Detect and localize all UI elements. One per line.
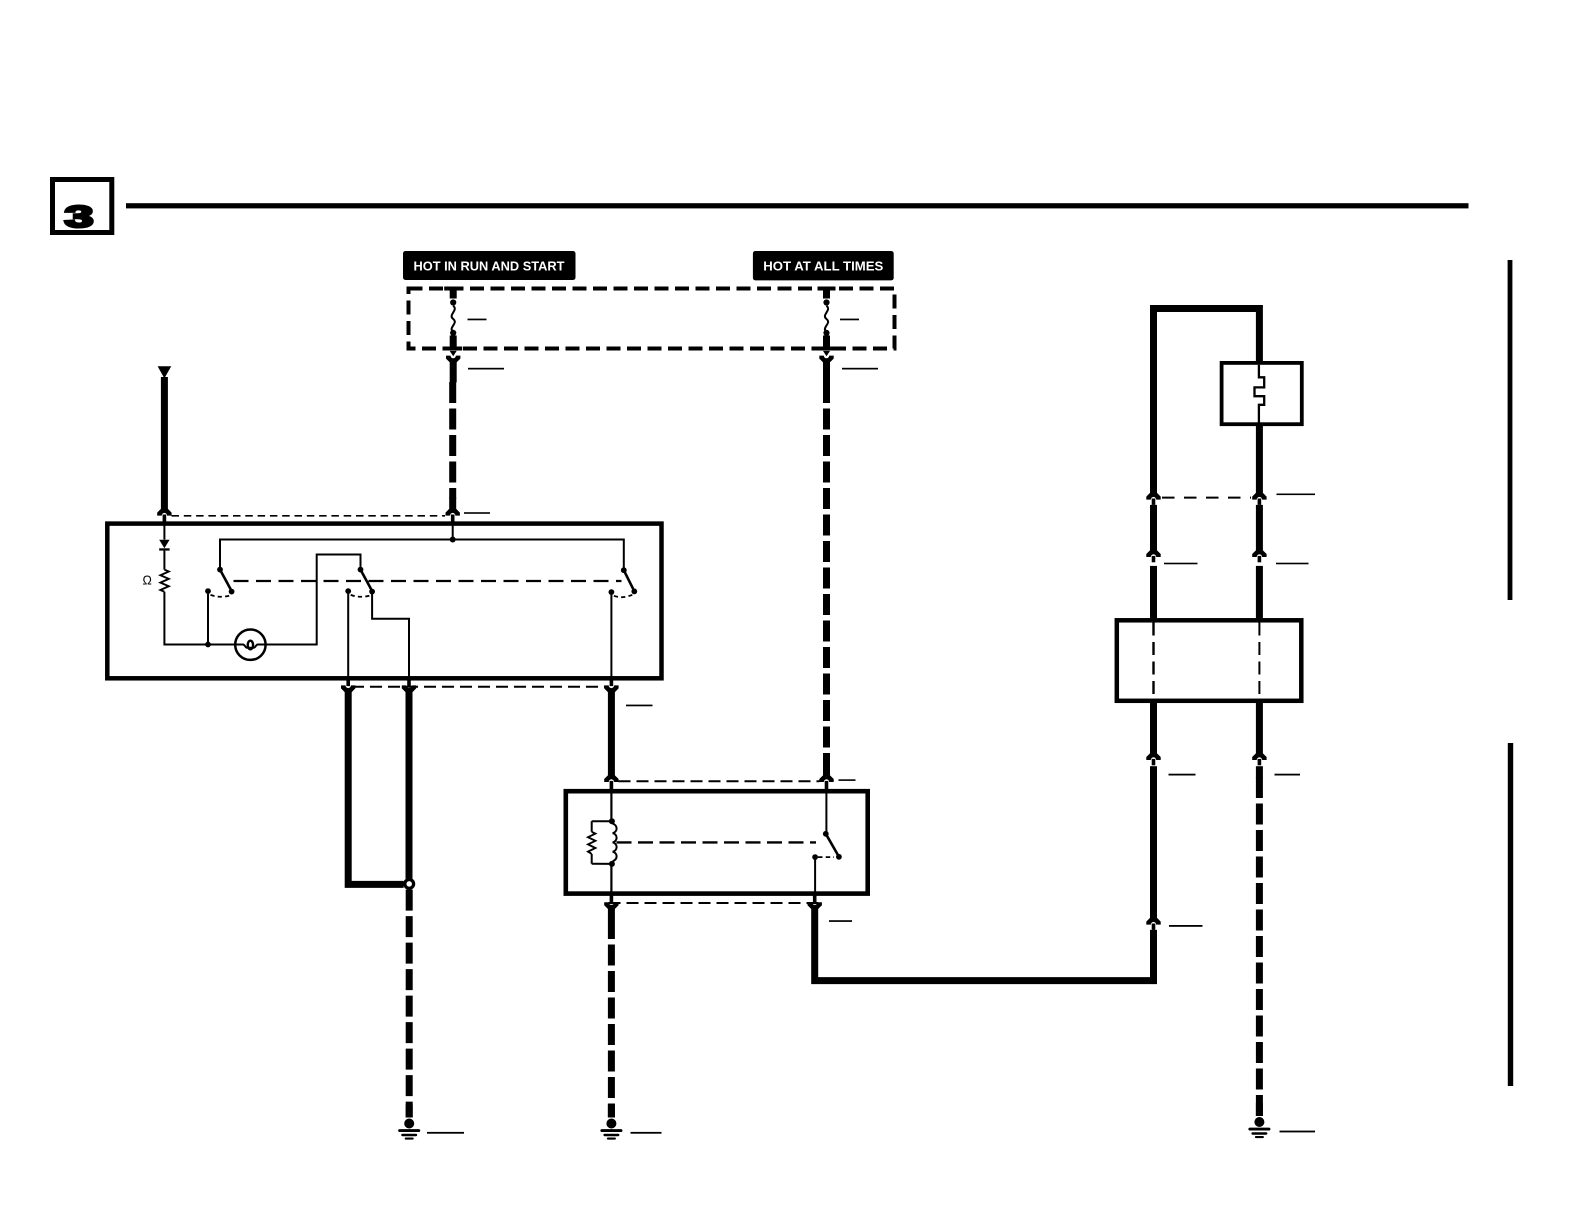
fuse box (dashed) xyxy=(409,289,895,349)
connector plane dashed line (relay bottom) xyxy=(609,902,819,904)
page edge bar lower xyxy=(1508,743,1513,1086)
wire C radio to relay xyxy=(608,691,615,776)
speaker element xyxy=(1255,365,1265,423)
ground G1 xyxy=(398,1119,420,1140)
connector label line (relay bottom right) xyxy=(829,920,852,922)
resistor R1 xyxy=(160,570,168,592)
wire crossing bar top F2 xyxy=(818,287,836,291)
connector plane dashed line (radio bottom) xyxy=(352,686,607,688)
antenna xyxy=(158,366,172,509)
ground G3 label line xyxy=(1280,1131,1316,1133)
wire amp box bottom left stub xyxy=(1150,701,1157,754)
label line (speaker feed left) xyxy=(1164,563,1198,565)
ground G2 xyxy=(600,1119,622,1140)
switch S2 xyxy=(345,567,409,677)
inline connector pair at speaker feed (left) xyxy=(1146,550,1160,562)
diode D1 xyxy=(159,523,169,570)
svg-text:HOT IN RUN AND START: HOT IN RUN AND START xyxy=(414,258,565,273)
relay box xyxy=(566,791,868,893)
wire speaker box to C1 xyxy=(1256,425,1263,494)
wire relay to amplifier loop xyxy=(815,908,1154,981)
wire A radio to splice xyxy=(348,691,403,885)
amplifier box xyxy=(1117,620,1302,701)
connector antenna to radio xyxy=(157,509,171,522)
wire crossing bar bottom F2 xyxy=(818,347,836,351)
node rail junction xyxy=(450,537,456,543)
fuse F1 xyxy=(450,287,457,347)
connector below fuse F1 xyxy=(446,351,460,363)
connector below fuse F2 xyxy=(819,351,833,363)
connector C1 label line xyxy=(1277,494,1316,496)
connector B+ to radio xyxy=(446,509,460,522)
connector plane dashed line (radio top) xyxy=(172,515,446,517)
ground G2 label line xyxy=(631,1132,662,1134)
connector radio bottom pin 3 xyxy=(604,676,618,692)
wire label line (F1 wire) xyxy=(468,368,504,370)
top rail (B+ distribution) xyxy=(220,540,624,571)
ground G1 label line xyxy=(427,1132,464,1134)
wire relay to ground (dashed) xyxy=(608,907,615,1117)
connector plane dashed line (relay top) xyxy=(619,780,820,782)
wire crossing bar top F1 xyxy=(444,287,462,291)
page number box "3" xyxy=(53,180,112,235)
relay linkage dashed xyxy=(617,841,817,843)
node junction (lamp wire) xyxy=(205,642,211,648)
page edge bar upper xyxy=(1508,260,1513,600)
wire into amp top right xyxy=(1256,566,1263,618)
speaker box xyxy=(1222,363,1302,424)
relay coil assembly xyxy=(588,793,617,894)
speaker loop wire xyxy=(1154,309,1260,494)
wire between connectors right xyxy=(1256,505,1263,551)
wire into amp top left xyxy=(1150,566,1157,618)
lamp L1 xyxy=(235,630,265,660)
wire amp to C3 xyxy=(1150,766,1157,918)
connector radio bottom pin 2 xyxy=(402,676,416,692)
inline connector C3 (lower right) xyxy=(1146,918,1160,930)
wire lamp to switch S2 xyxy=(265,555,361,645)
svg-text:3: 3 xyxy=(65,199,94,234)
inline connector C1 left xyxy=(1146,493,1160,505)
wire label line (F2 wire) xyxy=(842,368,878,370)
connector below amp right label line xyxy=(1275,774,1301,776)
connector below amp right xyxy=(1252,753,1266,765)
splice ring xyxy=(405,880,414,889)
connector relay top left xyxy=(604,775,618,791)
wire right to ground (dashed) xyxy=(1256,766,1263,1116)
svg-text:Ω: Ω xyxy=(143,574,152,588)
connector below amp left xyxy=(1146,753,1160,765)
fuse F1 value label line xyxy=(468,319,487,321)
connector below amp left label line xyxy=(1169,774,1196,776)
ground G3 xyxy=(1248,1117,1270,1138)
connector label line (radio bottom) xyxy=(626,705,653,707)
wire between connectors left xyxy=(1150,505,1157,551)
wire amp box bottom right stub xyxy=(1256,701,1263,754)
pin B+ into rail xyxy=(452,523,454,540)
wire crossing bar bottom F1 xyxy=(444,347,462,351)
amp internal dashed wire right xyxy=(1258,623,1260,699)
wire B splice to ground (dashed) xyxy=(406,890,413,1118)
switch linkage dashed (radio) xyxy=(234,580,622,582)
label HOT AT ALL TIMES xyxy=(753,251,894,280)
wire resistor to lamp xyxy=(164,592,236,645)
wire B radio to splice xyxy=(406,691,413,879)
connector relay top right xyxy=(819,775,833,791)
connector label line (relay top right) xyxy=(839,779,856,781)
relay switch xyxy=(812,793,842,894)
connector radio bottom pin 1 xyxy=(341,676,355,692)
svg-text:HOT AT ALL TIMES: HOT AT ALL TIMES xyxy=(763,258,883,273)
connector relay bottom right xyxy=(808,894,822,909)
wire fuse F1 to radio (B+) xyxy=(449,361,457,511)
switch S1 xyxy=(205,567,234,645)
connector relay bottom left xyxy=(604,894,618,909)
amp internal dashed wire left xyxy=(1152,623,1154,699)
fuse F2 value label line xyxy=(840,319,859,321)
label HOT IN RUN AND START xyxy=(403,251,576,280)
wire fuse F2 to relay xyxy=(823,361,830,776)
connector C3 label line xyxy=(1169,925,1203,927)
label line (speaker feed right) xyxy=(1276,563,1309,565)
inline connector pair at speaker feed (right) xyxy=(1252,550,1266,562)
connector plane dashed line (C1) xyxy=(1162,497,1251,499)
inline connector C1 right xyxy=(1252,493,1266,505)
fuse F2 xyxy=(823,287,830,347)
header rule xyxy=(126,203,1469,208)
connector label line (B+) xyxy=(464,512,490,514)
radio unit box xyxy=(107,524,661,679)
switch S3 xyxy=(609,567,638,676)
